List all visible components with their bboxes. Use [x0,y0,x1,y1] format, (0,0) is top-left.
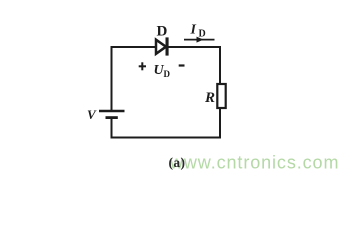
wire right vertical upper (top corner down to resistor) [219,46,221,84]
wire bottom segment [111,137,222,139]
wire left vertical lower (battery to bottom corner) [111,119,113,139]
caption (a) [169,155,186,170]
wire top-right segment (diode cathode to resistor branch) [168,46,220,48]
watermark www.cntronics.com [169,153,339,173]
label R (resistor designator) [204,90,215,106]
diode D [156,37,169,55]
svg-text:(a): (a) [169,155,186,170]
wire left vertical upper (top corner down to battery) [111,46,113,110]
svg-text:D: D [199,29,206,40]
svg-text:www.cntronics.com: www.cntronics.com [169,153,339,173]
label U_D (diode voltage) [154,63,171,79]
battery V [99,111,125,118]
wire right vertical lower (resistor to bottom corner) [219,108,221,139]
label I_D (current) [190,23,206,40]
label V (battery value) [87,107,97,122]
label + (anode polarity) [139,62,146,70]
svg-text:R: R [204,90,215,106]
label - (cathode polarity) [179,64,185,66]
svg-text:V: V [87,107,97,122]
svg-text:I: I [190,23,197,38]
resistor R [217,84,225,108]
svg-text:D: D [164,69,171,79]
wire top-left segment (battery to diode anode) [111,46,156,48]
svg-text:D: D [157,24,168,40]
current arrow I_D [184,37,215,43]
label D (diode designator) [157,24,168,40]
